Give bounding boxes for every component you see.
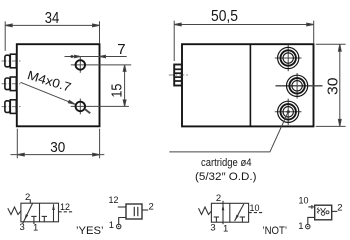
- svg-text:2: 2: [149, 201, 154, 212]
- YES port 1 stub: [33, 222, 35, 224]
- YES blocked port 1 (left cell): [33, 216, 35, 221]
- svg-text:1: 1: [33, 223, 38, 234]
- fitting 3 centerline: [2, 106, 22, 108]
- lower screw hole crosshair: [71, 99, 129, 115]
- port 2 crosshair: [276, 73, 323, 99]
- svg-text:10: 10: [299, 196, 309, 207]
- svg-text:7: 7: [117, 41, 125, 58]
- lower screw hole: [76, 102, 86, 112]
- NOT logic wire 2: [332, 210, 338, 212]
- svg-text:1: 1: [298, 221, 303, 232]
- svg-text:12: 12: [60, 202, 70, 213]
- YES logic bars: [133, 207, 135, 216]
- svg-text:’NOT’: ’NOT’: [263, 225, 288, 237]
- dimension 50,5: [174, 21, 314, 61]
- inlet barb fitting (top view): [174, 65, 182, 86]
- port 3 (cartridge): [278, 101, 299, 122]
- barb fitting 1: [5, 54, 16, 68]
- NOT logic wire 10: [308, 206, 314, 208]
- NOT spring: [199, 207, 212, 215]
- upper screw hole: [76, 60, 86, 70]
- dimension 7: [65, 55, 127, 58]
- YES logic wire 2: [142, 209, 148, 211]
- svg-text:50,5: 50,5: [211, 8, 238, 25]
- fitting 1 centerline: [2, 60, 22, 62]
- svg-text:12: 12: [109, 195, 119, 206]
- YES exhaust diagonal 2-3: [24, 203, 32, 220]
- dimension 30 (left view): [11, 129, 105, 159]
- port 1 (cartridge): [278, 47, 299, 68]
- port 3 crosshair: [275, 99, 302, 125]
- NOT logic wire 1: [308, 217, 315, 224]
- barb fitting 2: [5, 77, 16, 91]
- YES logic wire 12: [118, 206, 126, 208]
- svg-text:30: 30: [50, 139, 65, 156]
- svg-text:15: 15: [109, 84, 125, 98]
- svg-text:1: 1: [223, 224, 228, 235]
- NOT blocked port (right cell): [241, 217, 243, 222]
- svg-text:2: 2: [216, 193, 221, 204]
- NOT exhaust diagonal (right cell): [235, 204, 244, 221]
- NOT logic inner spring: [317, 208, 319, 214]
- port 1 crosshair: [275, 45, 302, 71]
- svg-text:10: 10: [250, 203, 260, 214]
- body parting line: [249, 44, 251, 126]
- NOT pilot 10 dashed line: [249, 212, 263, 214]
- svg-text:30: 30: [326, 78, 342, 96]
- valve body outline (left view): [17, 44, 100, 126]
- svg-text:(5/32″ O.D.): (5/32″ O.D.): [195, 171, 257, 183]
- dimension 15: [123, 65, 126, 107]
- cartridge leader line: [169, 110, 290, 152]
- valve body outline (top view): [182, 44, 314, 126]
- barb fitting 3: [5, 100, 16, 114]
- YES logic box: [126, 204, 142, 219]
- YES flow arrow 1-2 (right cell): [53, 204, 55, 222]
- svg-text:2: 2: [25, 192, 30, 203]
- svg-text:2: 2: [337, 203, 342, 214]
- port 2 (cartridge): [287, 75, 308, 96]
- svg-text:1: 1: [109, 220, 114, 231]
- NOT flow line 1-2: [222, 201, 224, 224]
- inlet fitting centerline (top view): [169, 74, 189, 76]
- NOT logic box: [315, 205, 332, 220]
- YES pilot 12 dashed line: [59, 211, 74, 213]
- fitting 2 centerline: [2, 83, 22, 85]
- YES valve box: [21, 203, 59, 222]
- upper screw hole crosshair: [71, 57, 131, 73]
- NOT valve box: [211, 203, 248, 222]
- NOT blocked port 3 (left cell): [215, 217, 217, 222]
- svg-text:cartridge ø4: cartridge ø4: [201, 157, 252, 169]
- NOT logic vent circle: [306, 224, 310, 228]
- svg-text:3: 3: [210, 223, 215, 234]
- svg-text:3: 3: [20, 222, 25, 233]
- YES spring: [8, 207, 21, 215]
- svg-text:34: 34: [45, 10, 60, 27]
- M4x0.7 thread callout leader: [21, 82, 91, 113]
- dimension 30 (top view): [316, 44, 346, 126]
- YES logic wire 1: [119, 218, 126, 225]
- NOT logic inner poppet: [321, 208, 326, 212]
- dimension 34: [5, 21, 99, 51]
- svg-text:’YES’: ’YES’: [76, 225, 104, 237]
- YES logic vent circle: [117, 224, 121, 228]
- YES blocked port (right cell): [43, 216, 45, 221]
- YES port 2 stub: [29, 199, 31, 203]
